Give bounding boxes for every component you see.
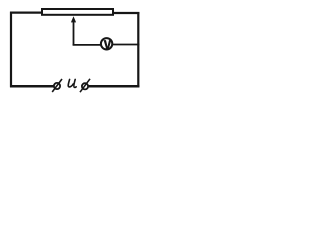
wire left vertical [10, 12, 12, 88]
wire right vertical [137, 12, 139, 87]
label u (input voltage) [68, 79, 76, 87]
terminal 1 (left input terminal) [52, 79, 62, 92]
wiper arrow [71, 16, 76, 45]
wire top-left segment [10, 12, 42, 14]
wire top-right segment [113, 12, 139, 14]
wire bottom-right segment [89, 85, 140, 88]
rheostat R (slide-wire box) [42, 9, 113, 15]
terminal 2 (right input terminal) [80, 79, 90, 92]
voltmeter V (circle) [101, 38, 112, 49]
voltmeter letter V [104, 40, 112, 49]
wire bottom-left segment [10, 85, 54, 88]
wire wiper-to-voltmeter [73, 44, 101, 46]
wire voltmeter-to-right [113, 44, 140, 46]
